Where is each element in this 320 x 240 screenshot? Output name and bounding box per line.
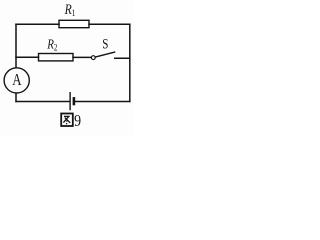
wire left (top corner down to ammeter) [15, 24, 17, 68]
wire left lower (ammeter to bottom corner) [15, 93, 17, 102]
wire top-right (R1 to corner) [89, 23, 130, 25]
wire middle (R2 to switch pivot) [73, 56, 91, 58]
wire middle-right (switch contact to right wire) [115, 57, 130, 59]
wire middle-left (left wire to R2) [16, 56, 39, 58]
battery short plate [73, 97, 76, 105]
wire bottom-left (corner to battery) [16, 101, 70, 103]
wire bottom-right (battery to corner) [75, 101, 130, 103]
wire top-left (corner to R1) [16, 23, 59, 25]
caption glyph 图 [61, 114, 73, 127]
resistor R1 [59, 20, 89, 27]
switch S blade [95, 52, 115, 57]
svg-text:9: 9 [74, 112, 81, 131]
switch S pivot [91, 56, 95, 60]
ammeter A [4, 68, 29, 93]
svg-text:S: S [102, 36, 108, 52]
battery long plate [69, 92, 71, 110]
wire right (top corner to bottom corner) [129, 24, 131, 101]
resistor R2 [39, 54, 74, 61]
svg-text:A: A [12, 71, 21, 89]
